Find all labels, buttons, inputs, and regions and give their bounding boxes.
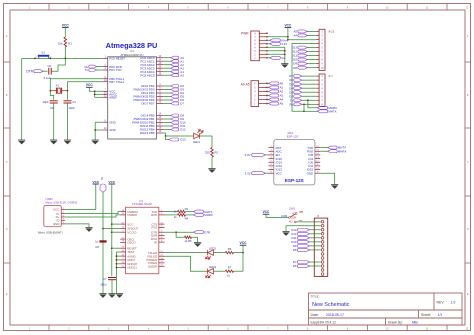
ground <box>208 169 215 173</box>
node DTR junction <box>175 231 177 233</box>
node RESET junction <box>111 247 113 249</box>
node AVCC junctions <box>94 90 96 92</box>
wire reset net <box>22 57 103 59</box>
svg-text:VCC: VCC <box>263 210 270 214</box>
net flag D7 <box>301 75 316 77</box>
USB pin 4 ID <box>61 219 65 221</box>
J3 socket 7 <box>321 245 324 248</box>
U1 pin 15 PWM DIG9 PB1 / net D9 <box>157 118 164 120</box>
ground <box>99 294 106 298</box>
svg-text:GND: GND <box>109 120 115 124</box>
svg-text:MHRX: MHRX <box>204 213 213 217</box>
svg-text:COM: COM <box>291 216 297 219</box>
ground <box>194 243 201 247</box>
U1 pin 6 DIG4 PD4 / net D4 <box>157 92 164 94</box>
resistor R5 1k <box>185 236 192 238</box>
svg-text:D6: D6 <box>293 264 297 268</box>
U1 pin 1 PC6 RESET <box>103 57 108 59</box>
U1 pin 20 AVCC <box>103 93 108 95</box>
svg-text:D7: D7 <box>180 102 184 106</box>
LED LED1 <box>194 130 203 139</box>
title block <box>309 293 463 325</box>
U1 pin 23 PC0 ADC0 / net A0 <box>157 57 164 59</box>
wire VCC rail <box>242 245 244 271</box>
U4 pin 28 OSCO <box>120 241 125 243</box>
resistor R7 <box>225 270 233 272</box>
wire GND pins <box>95 121 103 123</box>
svg-text:VCC: VCC <box>240 241 248 245</box>
power flag VCC (analog) <box>86 83 93 87</box>
J3 socket 2 <box>321 224 324 227</box>
svg-text:NC: NC <box>292 212 296 215</box>
wire R2 to ground <box>211 157 213 169</box>
svg-text:R6: R6 <box>228 247 232 251</box>
svg-text:1u: 1u <box>95 240 99 244</box>
svg-text:VCC: VCC <box>62 23 70 27</box>
U4 pin 27 OSCI <box>120 238 125 240</box>
U1 pin 10 PB7 XTAL2 <box>103 81 108 83</box>
net flag D13 <box>169 138 179 141</box>
net flag D2 <box>301 95 316 97</box>
svg-text:VCC: VCC <box>285 23 292 27</box>
ground <box>64 140 71 144</box>
node VCC pin junction <box>111 223 113 225</box>
USB pin 3 D+ <box>61 216 65 218</box>
svg-text:VCC: VCC <box>109 180 116 184</box>
svg-text:0.1uF: 0.1uF <box>44 76 51 80</box>
wire VCC to R1 <box>64 28 66 37</box>
svg-text:D12: D12 <box>180 128 186 132</box>
wire NO to header <box>296 221 321 223</box>
U4 pin 2 DTR <box>159 231 165 233</box>
net flag A5 <box>267 103 270 105</box>
wire AVCC/AREF bus <box>94 91 96 97</box>
node D13 junction <box>165 135 167 137</box>
node 3V3OUT junction <box>102 228 104 230</box>
U4 pin 10 DCD <box>159 238 165 240</box>
wire J3 pin2 to ground <box>286 226 321 232</box>
wire TXD to R3 <box>165 211 178 213</box>
net flag 3.3V <box>267 43 271 45</box>
ESP pin right IO2 <box>315 165 320 167</box>
wire DIG13 to junction <box>163 133 165 136</box>
power flag VCC (reset pullup) <box>62 23 70 27</box>
ground <box>331 185 338 189</box>
net flag D7 (J3) <box>309 261 321 263</box>
wire C2 to ground <box>53 103 55 140</box>
U1 pin 2 PD0 RXD <box>103 66 108 68</box>
U1 pin 14 DIG 8 PB0 / net D8 <box>157 115 164 117</box>
svg-text:GND: GND <box>307 171 313 175</box>
wire USB VCC up to flag <box>65 184 96 210</box>
svg-text:RTS: RTS <box>151 226 157 230</box>
ESP pin left IO13 <box>269 169 274 171</box>
wire USB D+ to USBDP <box>65 215 120 217</box>
capacitor C8 <box>99 240 106 242</box>
wire junction to LED1 <box>166 135 194 137</box>
capacitor C2 10pF <box>50 100 58 102</box>
svg-text:R4: R4 <box>185 217 189 221</box>
J3 socket 12 <box>321 265 324 268</box>
net flag MHTX (ESP TXD) <box>320 147 329 149</box>
ESP pin right IO4 <box>315 158 320 160</box>
U1 pin 17 DIG11 PB3 / net D11 <box>157 125 164 127</box>
net flag D11 <box>306 55 316 57</box>
U4 pin 15 USBDP <box>120 214 125 216</box>
net flag MHRX <box>193 213 203 216</box>
svg-text:VCC: VCC <box>276 171 282 175</box>
svg-text:AREF: AREF <box>109 96 117 100</box>
wire DTR out <box>165 231 195 233</box>
svg-text:R3: R3 <box>185 207 189 211</box>
svg-text:LED1: LED1 <box>193 140 200 144</box>
wire C7 to ground <box>111 280 113 294</box>
U1 pin 4 DIG2 PD2 / net D2 <box>157 85 164 87</box>
U1 pin 26 PC3 ADC3 / net A3 <box>157 67 164 69</box>
svg-text:3.3V: 3.3V <box>245 172 251 176</box>
resistor R6 <box>225 251 233 253</box>
wire button to ground <box>21 58 23 140</box>
net flag D4 <box>301 87 316 89</box>
svg-text:ESP-12S: ESP-12S <box>285 178 304 183</box>
wire VCC to headers <box>287 28 289 40</box>
J3 socket 14 <box>321 273 324 276</box>
net flag A3 <box>267 94 270 96</box>
net flag D11 (J3) <box>309 237 321 239</box>
ESP pin right IO15 <box>315 169 320 171</box>
svg-text:3.3V: 3.3V <box>281 42 287 46</box>
net flag MHTX <box>317 110 328 113</box>
ESP pin left IO16 <box>269 158 274 160</box>
U1 pin 12 PWM DIG6 PD6 / net D6 <box>157 99 164 101</box>
U1 pin 8 GND <box>103 121 108 123</box>
ground <box>282 232 289 236</box>
ESP pin left RST <box>269 147 274 149</box>
svg-text:C7: C7 <box>103 277 107 281</box>
U4 pin 18 GND18 <box>120 263 125 265</box>
net flag A2 <box>267 90 270 92</box>
U4 pin 17 3V3OUT <box>120 228 125 230</box>
svg-text:C6: C6 <box>48 64 52 68</box>
USB pin 5 GND <box>61 223 65 225</box>
ground <box>92 140 99 144</box>
wire X1 to C1 <box>67 91 69 100</box>
U1 pin 19 DIG13 PB5 <box>157 132 164 134</box>
net flag A1 <box>267 86 270 88</box>
net flag D3 <box>301 91 316 93</box>
net flag DTR <box>193 231 203 234</box>
U4 pin 26 TEST <box>120 251 125 253</box>
J3 socket 3 <box>321 228 324 231</box>
svg-text:COM: COM <box>281 214 288 218</box>
net flag A5 <box>306 30 316 32</box>
wire TXLED to LED2 <box>165 252 208 254</box>
svg-text:D13: D13 <box>180 138 186 142</box>
ESP pin right IO5 <box>315 154 320 156</box>
svg-text:USBDP: USBDP <box>127 213 137 217</box>
svg-text:A5: A5 <box>180 73 184 77</box>
wire to D13 flag <box>166 136 170 140</box>
svg-text:DTR: DTR <box>26 69 33 73</box>
wire DTR flag to C6 <box>42 70 47 72</box>
wire RXD to R4 <box>165 214 178 216</box>
U4 pin 13 TXDEN <box>159 262 165 264</box>
svg-text:Rx: Rx <box>289 102 293 106</box>
svg-text:D8: D8 <box>293 66 297 70</box>
net flag Rx <box>301 103 316 105</box>
J3 socket 11 <box>321 261 324 264</box>
net flag MHRX <box>317 106 328 109</box>
J3 socket 6 <box>321 241 324 244</box>
net flag A4 <box>267 99 270 101</box>
wire AGND bus <box>116 255 120 257</box>
svg-text:0-7: 0-7 <box>329 74 334 78</box>
U1 pin 13 DIG7 PD7 / net D7 <box>157 103 164 105</box>
wire DTR to R5 <box>176 232 184 237</box>
net flag D5 <box>301 83 316 85</box>
U4 pin 19 RESET <box>120 247 125 249</box>
U1 pin 28 PC5 ADC5 / net A5 <box>157 74 164 76</box>
svg-text:PC6 RESET: PC6 RESET <box>109 57 125 61</box>
svg-text:New Schematic: New Schematic <box>312 302 350 308</box>
svg-text:C1: C1 <box>72 100 76 104</box>
wire VCC flag to VCC pin <box>89 87 103 91</box>
svg-text:PD1 TXD: PD1 TXD <box>109 68 121 72</box>
U4 pin 3 RTS <box>159 226 165 228</box>
U4 pin 21 GND21 <box>120 267 125 269</box>
net flag D12 (J3) <box>309 233 321 235</box>
svg-text:PWR: PWR <box>241 31 249 35</box>
svg-text:3.3V: 3.3V <box>245 153 251 157</box>
svg-text:LED3: LED3 <box>209 265 216 269</box>
wire R1 to reset net <box>64 47 66 58</box>
ESP pin right GND <box>315 172 320 174</box>
net flag D6 <box>301 79 316 81</box>
ESP pin right IO0 <box>315 161 320 163</box>
USB pin 2 D- <box>61 213 65 215</box>
J3 socket 9 <box>321 253 324 256</box>
net flag A0 <box>267 82 270 84</box>
capacitor C7 100n <box>108 277 116 279</box>
svg-text:A0-A5: A0-A5 <box>241 83 250 87</box>
svg-text:10pF: 10pF <box>42 100 49 104</box>
wire R4 to flag <box>186 214 195 216</box>
U4 pin 5 RXD <box>159 214 165 216</box>
U4 pin 23 RXLED <box>159 255 165 257</box>
svg-text:RI: RI <box>154 240 157 244</box>
wire LED1 to R2 <box>200 136 213 148</box>
net flag D10 <box>306 59 316 61</box>
wire Tx row to MHRX <box>308 100 318 108</box>
power flag VCC (USB) <box>93 180 100 184</box>
svg-text:DTR: DTR <box>204 230 210 234</box>
ESP pin right TXD <box>315 147 320 149</box>
J3 socket 4 <box>321 232 324 235</box>
svg-text:C8: C8 <box>95 245 99 249</box>
net flag IOref <box>267 39 271 41</box>
svg-text:GND21: GND21 <box>127 266 137 270</box>
capacitor C1 10pF <box>64 100 72 102</box>
ESP pin left EN <box>269 154 274 156</box>
J3 socket 8 <box>321 249 324 252</box>
power flag VCC (FT232) <box>109 180 116 184</box>
USB pin 1 VCC <box>61 209 65 211</box>
wire C6 to reset net <box>51 58 65 71</box>
U4 pin 7 GND7 <box>120 259 125 261</box>
svg-text:330: 330 <box>205 150 210 154</box>
wire RXLED to LED3 <box>165 256 208 271</box>
svg-text:1.0: 1.0 <box>451 301 456 305</box>
svg-text:TITLE:: TITLE: <box>311 295 320 299</box>
U4 pin 1 TXD <box>159 211 165 213</box>
svg-text:MHRX: MHRX <box>338 149 347 153</box>
wire C1 to ground <box>67 103 69 140</box>
svg-text:8-13: 8-13 <box>329 30 335 34</box>
svg-text:OSCO: OSCO <box>127 241 136 245</box>
net flag D8 <box>306 67 316 69</box>
svg-text:Tx: Tx <box>85 68 89 72</box>
U4 pin 20 VCC <box>120 223 125 225</box>
svg-text:SW1: SW1 <box>289 206 296 210</box>
J3 socket 1 <box>321 220 324 223</box>
power flag VCC (switch) <box>263 210 270 214</box>
node GND junction <box>94 129 96 131</box>
svg-text:100n: 100n <box>100 283 107 287</box>
svg-text:DIG7 PD7: DIG7 PD7 <box>141 102 155 106</box>
svg-text:NO: NO <box>289 221 293 224</box>
U1 pin 7 VCC <box>103 90 108 92</box>
node VCCIO junction <box>111 231 113 233</box>
svg-text:FT232RLSSOP: FT232RLSSOP <box>132 202 152 206</box>
ESP pin left VCC <box>269 172 274 174</box>
svg-text:Date:: Date: <box>311 313 319 317</box>
wire R3 to flag <box>186 211 195 213</box>
net flag D10 (J3) <box>309 241 321 243</box>
svg-text:VCCIO: VCCIO <box>127 230 137 234</box>
resistor R4 1k <box>178 214 186 217</box>
svg-text:1k R5: 1k R5 <box>185 239 193 243</box>
svg-text:A5: A5 <box>280 102 284 106</box>
svg-text:Drawn By:: Drawn By: <box>388 320 403 324</box>
net flag MHTX <box>193 210 203 213</box>
svg-text:REV:: REV: <box>437 301 445 305</box>
U4 pin 25 AGND <box>120 255 125 257</box>
U4 pin 4 VCCIO <box>120 231 125 233</box>
U1 pin 27 PC4 ADC4 / net A4 <box>157 71 164 73</box>
wire USB D- to USBDM <box>65 212 120 214</box>
svg-text:VCC: VCC <box>86 83 93 87</box>
wire 8-13 pin4 to MHTX <box>292 43 316 111</box>
svg-text:EasyEDA V5.4.12: EasyEDA V5.4.12 <box>311 320 337 324</box>
resistor R1 10k <box>64 37 67 47</box>
svg-text:5V: 5V <box>100 176 104 179</box>
net flag MHRX (ESP RXD) <box>320 150 329 152</box>
U4 pin 16 USBDM <box>120 211 125 213</box>
wire R5 to ground <box>192 237 198 242</box>
power flag VCC (LEDs) <box>240 241 248 245</box>
wire Rx row to MHTX <box>303 104 305 111</box>
power flag VCC (top) <box>285 23 292 27</box>
net flag D9 (J3) <box>309 245 321 247</box>
wire PWR gnd rows <box>267 46 285 48</box>
svg-text:Micro USB-B(SMT): Micro USB-B(SMT) <box>38 231 63 235</box>
ground <box>18 140 25 144</box>
svg-text:PC5 ADC5: PC5 ADC5 <box>141 73 155 77</box>
ESP pin left IO14 <box>269 161 274 163</box>
svg-text:A4: A4 <box>293 34 297 38</box>
U1 pin 18 DIG12 PB4 / net D12 <box>157 129 164 131</box>
svg-text:Mile: Mile <box>412 320 418 324</box>
svg-text:D8: D8 <box>293 248 297 252</box>
U1 pin 24 PC1 ADC1 / net A1 <box>157 60 164 62</box>
svg-text:Micro USB-B 5P_C40942: Micro USB-B 5P_C40942 <box>46 200 78 204</box>
U1 pin 16 PWM DIG10 PB2 / net D10 <box>157 122 164 124</box>
net flag D9 <box>306 63 316 65</box>
ESP pin left ADC <box>269 150 274 152</box>
U1 pin 21 AREF <box>103 96 108 98</box>
svg-text:LED2: LED2 <box>209 246 216 250</box>
svg-text:S1: S1 <box>41 50 45 54</box>
svg-text:10k: 10k <box>58 42 63 46</box>
U4 pin 14 PWREN <box>159 259 165 261</box>
J3 socket 10 <box>321 257 324 260</box>
wire XTAL2 <box>68 82 104 91</box>
svg-text:10pF: 10pF <box>69 106 76 110</box>
svg-text:PB7 XTAL2: PB7 XTAL2 <box>109 80 124 84</box>
U1 pin 11 PWM DIG5 PD5 / net D5 <box>157 96 164 98</box>
wire 5V rail down <box>102 192 104 240</box>
wire VCC rail down <box>111 184 113 276</box>
U4 pin 22 TXLED <box>159 252 165 254</box>
ground <box>281 64 288 68</box>
ground <box>108 294 115 298</box>
node reset junctions <box>64 58 66 60</box>
wire LED3 to R7 <box>214 270 226 272</box>
capacitor C6 0.1uF <box>48 68 50 75</box>
net flag D8 (J3) <box>309 249 321 251</box>
resistor R3 1k <box>178 210 186 213</box>
net flag D12 <box>306 51 316 53</box>
wire USB GND <box>65 224 89 228</box>
ESP pin right RXD <box>315 150 320 152</box>
net flag Vin <box>267 57 271 59</box>
U4 pin 12 SLEEP <box>159 265 165 267</box>
ground <box>116 294 123 298</box>
svg-text:GND: GND <box>109 128 115 132</box>
net flag D13 (J3) <box>309 229 321 231</box>
net flag D13 <box>306 47 316 49</box>
svg-text:Sheet:: Sheet: <box>421 313 431 317</box>
svg-text:GND: GND <box>53 222 61 226</box>
svg-text:R1: R1 <box>68 42 72 46</box>
wire XTAL1 <box>50 79 103 91</box>
wire ESP GND <box>320 173 335 184</box>
svg-text:VCC: VCC <box>93 180 100 184</box>
wire R7 to VCC rail <box>234 270 243 272</box>
svg-text:X1: X1 <box>55 83 59 87</box>
svg-text:R7: R7 <box>228 266 232 270</box>
node X1 left <box>49 90 51 92</box>
node X1 right <box>67 90 69 92</box>
wire C8 to ground <box>102 243 104 294</box>
wire VCC to COM <box>266 214 289 217</box>
J3 socket 5 <box>321 237 324 240</box>
U4 pin 6 RI <box>159 241 165 243</box>
svg-text:MHTX: MHTX <box>328 109 336 113</box>
svg-text:R2: R2 <box>215 150 219 154</box>
node R6 junction <box>242 252 244 254</box>
svg-text:VCC: VCC <box>127 222 133 226</box>
